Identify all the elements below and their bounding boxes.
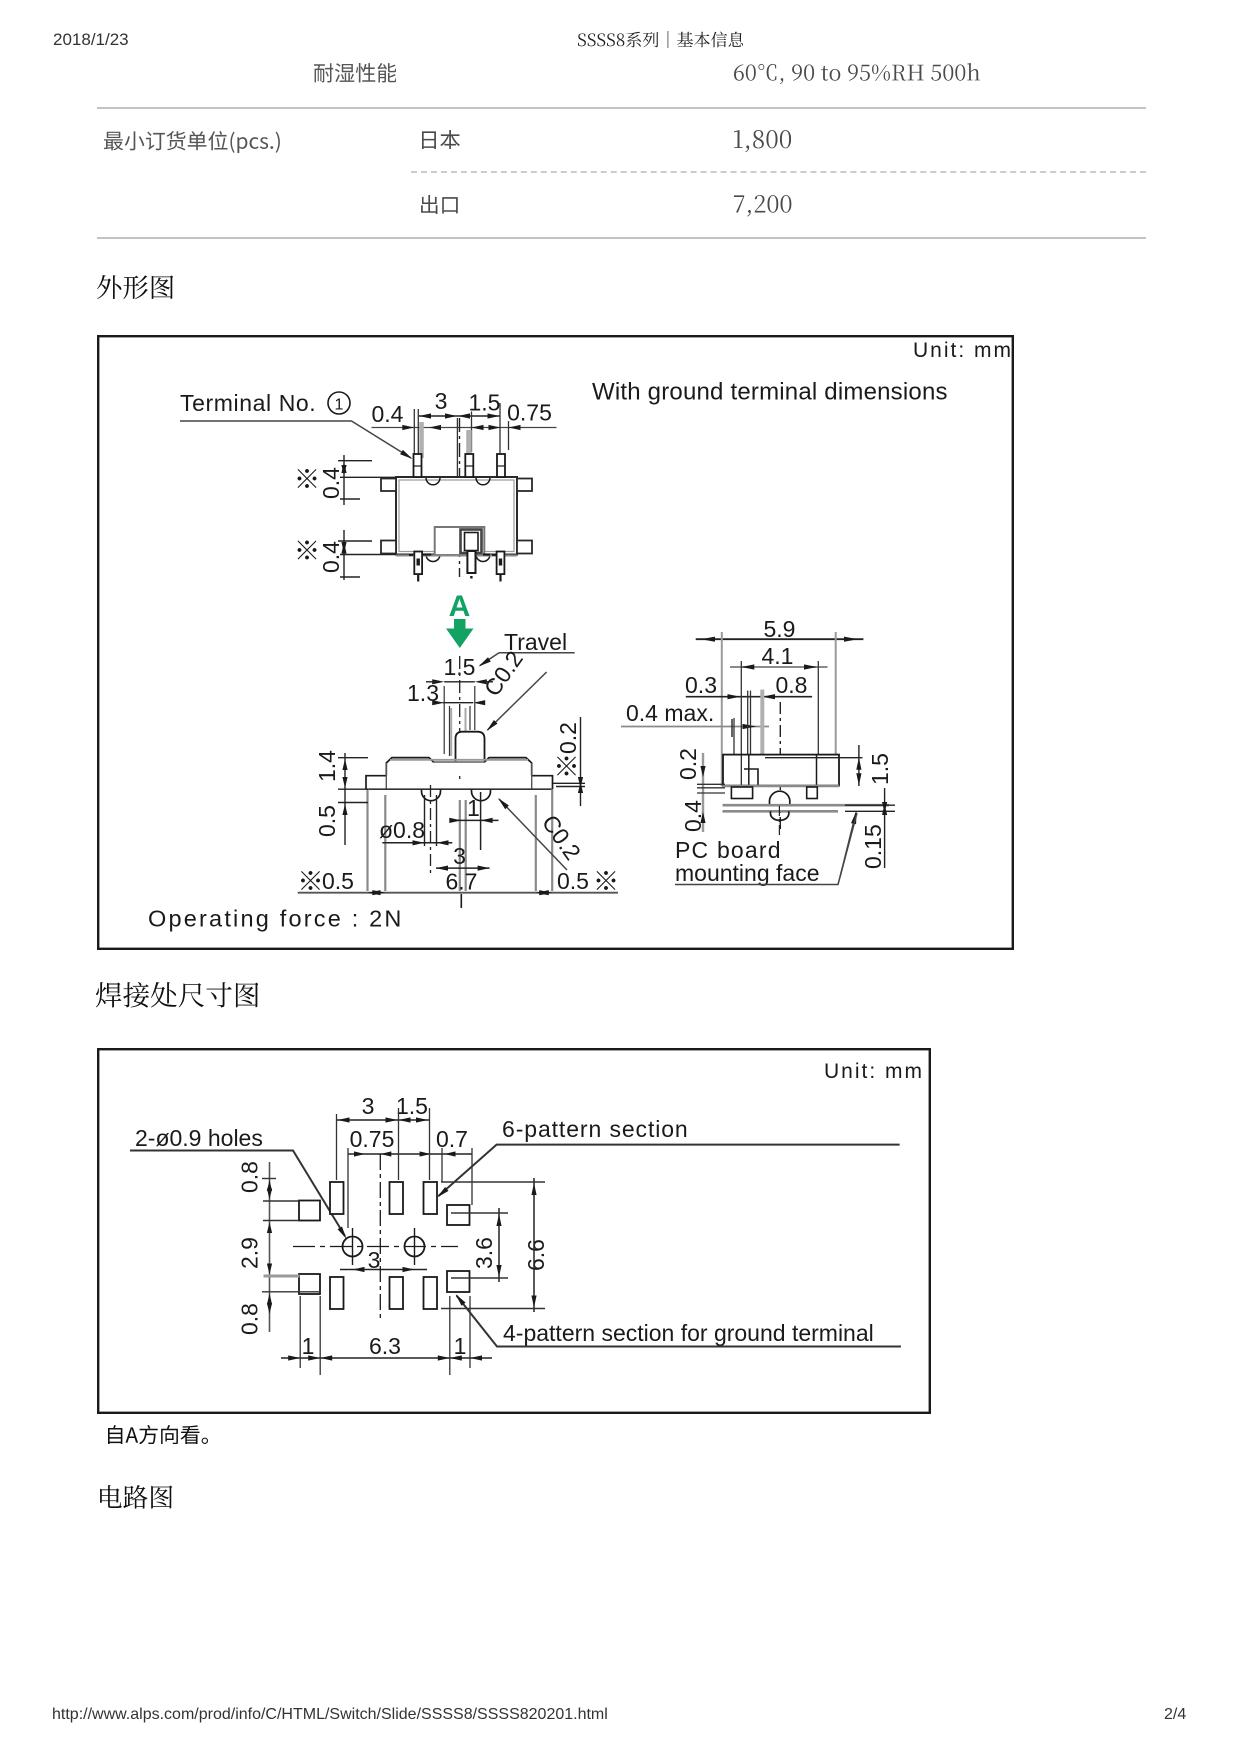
svg-text:0.4 max.: 0.4 max.: [626, 700, 714, 726]
svg-text:0.75: 0.75: [350, 1126, 395, 1152]
front stem extension lines: [444, 686, 475, 756]
svg-text:0.4: 0.4: [372, 401, 404, 427]
svg-text:1.5: 1.5: [867, 753, 893, 785]
svg-text:Terminal No.: Terminal No.: [180, 390, 316, 416]
svg-text:2.9: 2.9: [237, 1237, 263, 1269]
svg-text:0.8: 0.8: [237, 1161, 263, 1193]
front left dims 1.4 / 0.5: [314, 750, 340, 782]
dim 3.6: [471, 1237, 497, 1269]
table divider: [97, 107, 1146, 109]
header date: [53, 30, 129, 50]
front stem: [456, 732, 485, 762]
front flange line: [366, 788, 553, 790]
hole 2: [405, 1237, 425, 1257]
table row: humidity value: [734, 63, 980, 84]
top view terminals (top row): [414, 454, 422, 477]
svg-text:6.7: 6.7: [446, 869, 478, 895]
table row: export: [421, 195, 458, 214]
dim 6.6: [523, 1239, 549, 1271]
top view body: [396, 477, 517, 555]
svg-text:5.9: 5.9: [764, 616, 796, 642]
table row: humidity label: [314, 63, 397, 83]
side leader 0.15: [840, 813, 856, 878]
svg-text:A: A: [449, 590, 471, 623]
top view centerline: [459, 418, 461, 577]
heading outline drawing: [97, 275, 174, 299]
top view flanges: [381, 479, 396, 492]
svg-text:0.2: 0.2: [675, 748, 701, 780]
svg-text:0.3: 0.3: [685, 672, 717, 698]
svg-text:1.4: 1.4: [314, 750, 340, 782]
front flange wings: [366, 776, 553, 790]
svg-text:6-pattern section: 6-pattern section: [502, 1116, 689, 1142]
land pattern box: [97, 1048, 931, 1414]
top view edge notches: [426, 478, 440, 485]
footer url: [52, 1706, 608, 1724]
footer page number: [1164, 1706, 1186, 1724]
pattern top extension lines: [337, 1108, 473, 1228]
caption viewed from A: [108, 1425, 208, 1444]
svg-text:0.8: 0.8: [237, 1303, 263, 1335]
heading soldering dimensions: [96, 982, 259, 1008]
svg-text:0.15: 0.15: [860, 824, 886, 869]
top view extension lines: [414, 403, 508, 480]
side right dim 1.5: [867, 753, 893, 785]
svg-text:mounting face: mounting face: [675, 860, 819, 886]
svg-text:0.8: 0.8: [776, 672, 808, 698]
svg-text:0.4: 0.4: [318, 541, 344, 573]
table row: min order label: [104, 131, 280, 154]
front C0.2 upper label: [479, 646, 528, 701]
svg-text:0.2: 0.2: [555, 722, 581, 754]
svg-text:3: 3: [362, 1093, 375, 1119]
svg-text:1.5: 1.5: [396, 1093, 428, 1119]
top view terminals (bottom row): [414, 552, 422, 575]
svg-text:1: 1: [454, 1333, 467, 1359]
svg-text:0.5: 0.5: [322, 868, 354, 894]
heading circuit diagram: [100, 1485, 173, 1509]
svg-text:0.4: 0.4: [318, 467, 344, 499]
svg-text:1: 1: [467, 795, 480, 821]
top view left dim (0.4) lower: [298, 541, 317, 560]
four ground pads: [299, 1201, 320, 1221]
svg-text:Operating force : 2N: Operating force : 2N: [148, 906, 404, 932]
svg-text:3.6: 3.6: [471, 1237, 497, 1269]
side left dims 0.2 / 0.4: [675, 748, 701, 780]
left dims: [237, 1161, 263, 1193]
side extension verticals: [734, 661, 818, 770]
hole centre lines: [293, 1246, 458, 1248]
terminal No.1 leader: [180, 421, 411, 458]
svg-text:ø0.8: ø0.8: [379, 817, 425, 843]
svg-text:3: 3: [435, 388, 448, 414]
six signal pads: [330, 1182, 344, 1214]
svg-text:3: 3: [453, 843, 466, 869]
front body cover: [386, 758, 531, 776]
side right dim 0.15: [860, 824, 886, 869]
svg-text:1: 1: [335, 397, 344, 414]
top view left dim (0.4) upper: [298, 469, 317, 488]
svg-text:2-ø0.9 holes: 2-ø0.9 holes: [135, 1125, 263, 1151]
side body: [723, 755, 839, 786]
svg-text:1: 1: [302, 1333, 315, 1359]
front terminal arcs: [422, 789, 441, 801]
svg-text:4.1: 4.1: [762, 643, 794, 669]
svg-text:0.5: 0.5: [314, 805, 340, 837]
top view slider cavity: [435, 527, 485, 555]
svg-text:Unit: mm: Unit: mm: [824, 1060, 924, 1083]
svg-text:4-pattern section for ground t: 4-pattern section for ground terminal: [503, 1320, 874, 1346]
side lower body: [723, 785, 840, 787]
outline drawing box: [97, 335, 1014, 950]
front legs: [368, 789, 553, 891]
header title: [578, 31, 744, 48]
front C0.2 lower label: [537, 810, 586, 865]
svg-text:Unit: mm: Unit: mm: [913, 339, 1013, 362]
svg-text:6.3: 6.3: [369, 1333, 401, 1359]
top view dim lines: [418, 415, 500, 417]
svg-text:6.6: 6.6: [523, 1239, 549, 1271]
svg-text:With ground terminal dimension: With ground terminal dimensions: [592, 379, 948, 406]
svg-text:0.7: 0.7: [436, 1126, 468, 1152]
top view bottom edge: [396, 555, 517, 557]
dashed divider: [411, 171, 1146, 173]
front right dim 0.2: [557, 757, 576, 776]
hole 1: [343, 1237, 363, 1257]
svg-text:0.75: 0.75: [507, 400, 552, 426]
front baseline dims: [301, 871, 320, 890]
svg-text:1.5: 1.5: [469, 390, 501, 416]
svg-text:0.5: 0.5: [557, 868, 589, 894]
table row: japan: [422, 130, 460, 150]
top view break ticks: [409, 553, 497, 555]
table bottom divider: [97, 237, 1146, 239]
